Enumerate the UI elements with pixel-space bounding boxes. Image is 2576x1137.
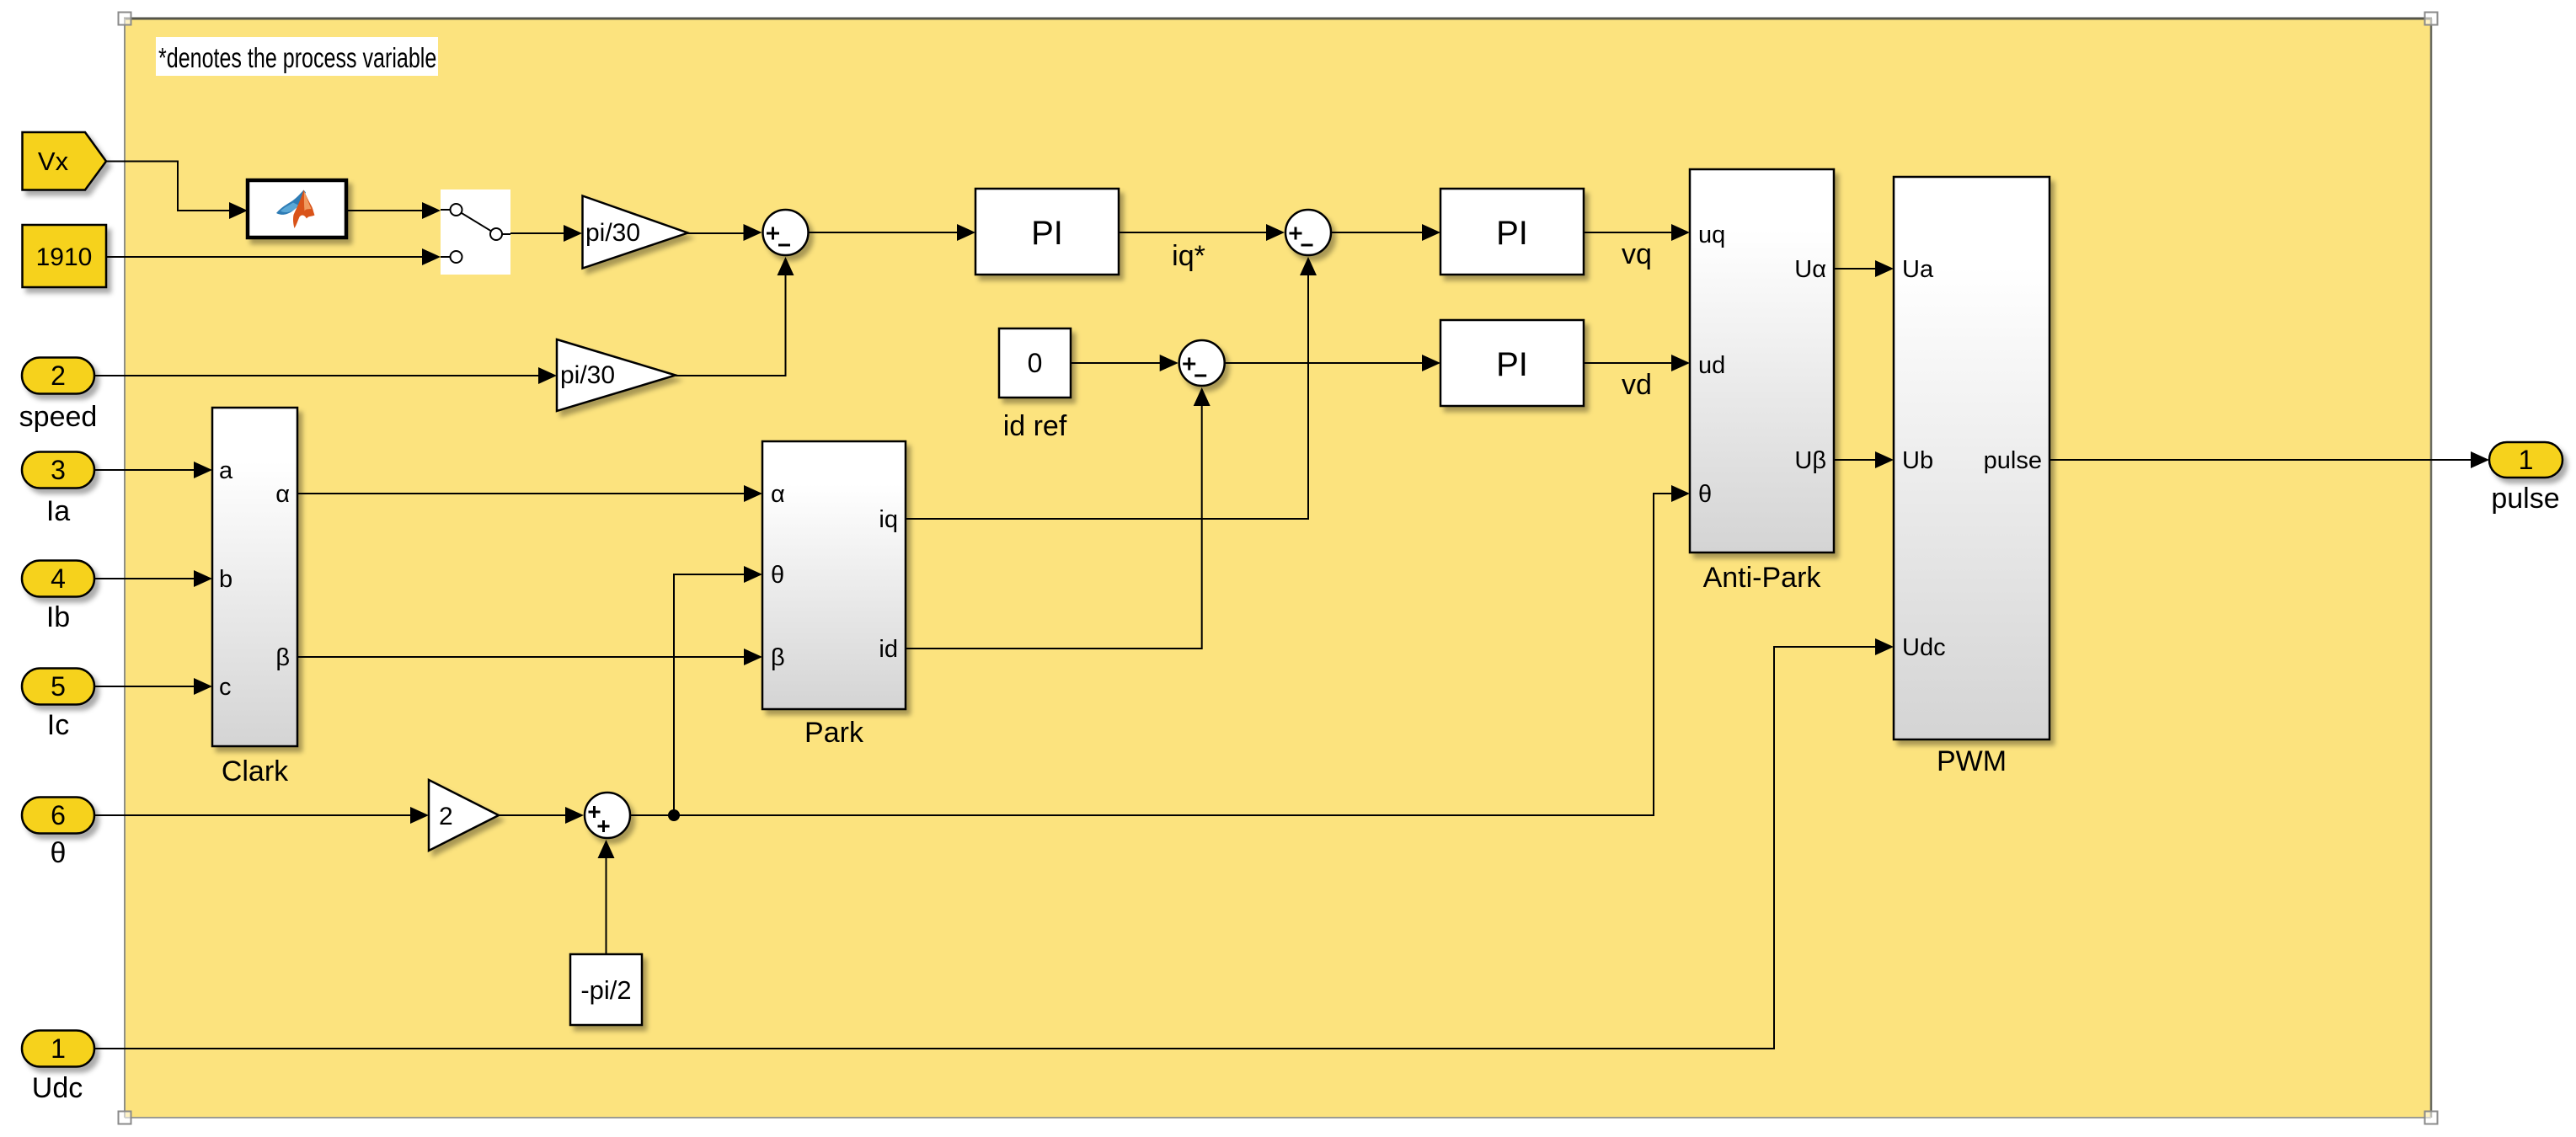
svg-text:id: id: [879, 636, 898, 663]
svg-text:iq: iq: [879, 506, 898, 533]
svg-text:θ: θ: [1698, 481, 1712, 508]
svg-text:pi/30: pi/30: [585, 219, 640, 247]
svg-text:α: α: [275, 481, 290, 508]
svg-text:0: 0: [1028, 348, 1043, 378]
svg-text:b: b: [219, 566, 232, 593]
svg-text:id ref: id ref: [1003, 410, 1067, 442]
svg-text:1: 1: [51, 1033, 66, 1064]
svg-text:θ: θ: [771, 562, 784, 589]
svg-text:Ia: Ia: [46, 495, 70, 527]
svg-text:*denotes the process variable: *denotes the process variable: [158, 43, 436, 74]
svg-text:1910: 1910: [36, 243, 93, 271]
svg-text:pulse: pulse: [1984, 447, 2042, 474]
svg-text:Uβ: Uβ: [1794, 447, 1826, 474]
svg-text:Ib: Ib: [46, 601, 70, 633]
svg-text:Ua: Ua: [1902, 256, 1934, 283]
svg-text:θ: θ: [51, 837, 67, 869]
svg-text:Clark: Clark: [222, 755, 289, 787]
svg-text:ud: ud: [1698, 352, 1725, 379]
svg-text:6: 6: [51, 800, 66, 830]
svg-text:α: α: [771, 481, 785, 508]
svg-text:pi/30: pi/30: [560, 361, 615, 389]
svg-text:Udc: Udc: [1902, 634, 1946, 661]
svg-text:5: 5: [51, 671, 66, 702]
svg-text:1: 1: [2519, 445, 2534, 475]
svg-text:Park: Park: [804, 717, 864, 749]
svg-text:β: β: [771, 644, 785, 671]
svg-text:PWM: PWM: [1937, 745, 2007, 777]
svg-text:4: 4: [51, 563, 66, 594]
svg-text:-pi/2: -pi/2: [580, 975, 631, 1005]
svg-text:pulse: pulse: [2491, 483, 2559, 515]
svg-text:β: β: [275, 644, 290, 671]
svg-text:iq*: iq*: [1172, 240, 1205, 272]
svg-text:PI: PI: [1496, 215, 1528, 252]
svg-text:Udc: Udc: [32, 1072, 83, 1104]
svg-text:2: 2: [439, 803, 453, 830]
svg-text:PI: PI: [1496, 346, 1528, 383]
svg-text:vq: vq: [1622, 238, 1652, 270]
svg-text:Ub: Ub: [1902, 447, 1933, 474]
svg-text:Vx: Vx: [38, 147, 69, 176]
svg-text:Anti-Park: Anti-Park: [1703, 562, 1822, 594]
svg-text:Uα: Uα: [1794, 256, 1826, 283]
svg-text:Ic: Ic: [47, 709, 69, 741]
svg-text:vd: vd: [1622, 369, 1652, 401]
svg-text:uq: uq: [1698, 222, 1725, 248]
svg-text:a: a: [219, 457, 233, 484]
svg-text:2: 2: [51, 360, 66, 391]
svg-text:PI: PI: [1031, 215, 1063, 252]
svg-text:c: c: [219, 674, 232, 701]
svg-text:speed: speed: [19, 401, 98, 433]
svg-text:3: 3: [51, 455, 66, 485]
